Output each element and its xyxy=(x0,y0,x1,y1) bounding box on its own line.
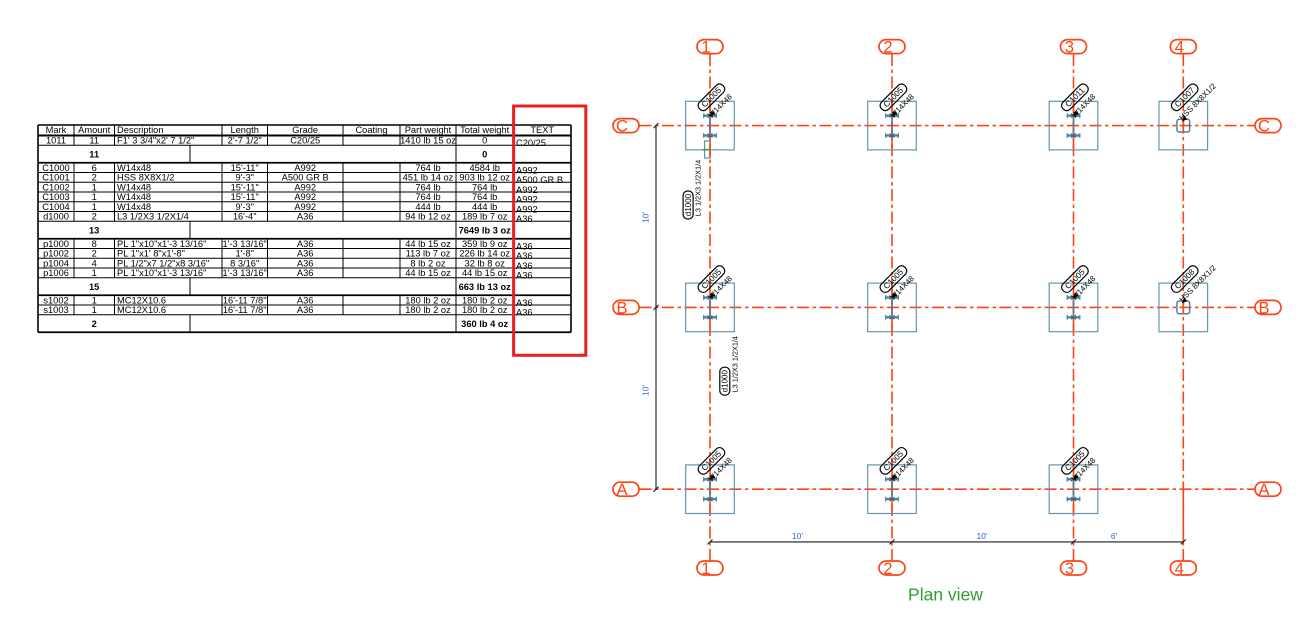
svg-text:p1002: p1002 xyxy=(43,249,69,259)
svg-text:TEXT: TEXT xyxy=(530,125,554,135)
svg-text:2: 2 xyxy=(883,560,892,578)
svg-text:10': 10' xyxy=(641,385,651,396)
svg-text:2: 2 xyxy=(92,319,97,329)
svg-text:44 lb 15 oz: 44 lb 15 oz xyxy=(462,268,508,278)
label C1005 W14X48 xyxy=(696,264,735,303)
svg-text:44 lb 15 oz: 44 lb 15 oz xyxy=(405,239,451,249)
grid bubble B xyxy=(1255,300,1281,314)
svg-text:4: 4 xyxy=(1175,39,1184,57)
svg-text:451 lb 14 oz: 451 lb 14 oz xyxy=(403,173,454,183)
svg-text:p1000: p1000 xyxy=(43,239,69,249)
svg-text:C1004: C1004 xyxy=(42,202,69,212)
svg-text:C: C xyxy=(1258,118,1270,136)
svg-text:16'-4": 16'-4" xyxy=(233,212,257,222)
grid bubble B xyxy=(613,300,639,314)
svg-text:A36: A36 xyxy=(297,249,314,259)
grid bubble A xyxy=(613,482,639,496)
svg-text:W14x48: W14x48 xyxy=(117,202,151,212)
svg-text:32 lb 8 oz: 32 lb 8 oz xyxy=(465,258,506,268)
column C1005 W14X48 at (892,125.6) xyxy=(868,101,917,150)
svg-text:A36: A36 xyxy=(516,251,533,261)
svg-text:Description: Description xyxy=(117,125,164,135)
svg-text:16'-11 7/8": 16'-11 7/8" xyxy=(223,295,267,305)
svg-text:A500 GR B: A500 GR B xyxy=(282,173,329,183)
red highlight rectangle over TEXT column xyxy=(514,106,586,355)
svg-text:HSS 8X8X1/2: HSS 8X8X1/2 xyxy=(117,173,174,183)
label C1005 W14X48 xyxy=(696,82,735,121)
svg-text:2: 2 xyxy=(883,39,892,57)
svg-text:PL 1"x10"x1'-3 13/16": PL 1"x10"x1'-3 13/16" xyxy=(117,268,206,278)
svg-text:A36: A36 xyxy=(297,295,314,305)
svg-text:764 lb: 764 lb xyxy=(472,192,497,202)
label C1007 HSS 8X8X1/2 xyxy=(1168,73,1217,122)
grid bubble A xyxy=(1255,482,1281,496)
svg-text:L3 1/2X3 1/2X1/4: L3 1/2X3 1/2X1/4 xyxy=(694,160,703,216)
green tick xyxy=(703,149,711,151)
svg-text:15'-11": 15'-11" xyxy=(231,182,259,192)
svg-text:A36: A36 xyxy=(297,239,314,249)
grid bubble 3 xyxy=(1061,561,1087,575)
grid bubble 1 xyxy=(697,561,723,575)
svg-text:1011: 1011 xyxy=(46,136,66,146)
svg-text:764 lb: 764 lb xyxy=(415,163,440,173)
svg-text:0: 0 xyxy=(482,149,487,159)
grid bubble 3 xyxy=(1061,40,1087,54)
grid bubble C xyxy=(1255,119,1281,133)
grid lines xyxy=(640,54,1255,561)
svg-text:444 lb: 444 lb xyxy=(472,202,497,212)
svg-text:Plan view: Plan view xyxy=(908,585,983,605)
svg-text:2'-7 1/2": 2'-7 1/2" xyxy=(228,136,262,146)
label C1005 W14X48 xyxy=(878,446,917,485)
svg-text:1: 1 xyxy=(92,295,97,305)
svg-text:A36: A36 xyxy=(516,298,533,308)
svg-text:Part weight: Part weight xyxy=(405,125,452,135)
svg-text:4: 4 xyxy=(92,258,97,268)
svg-text:94 lb 12 oz: 94 lb 12 oz xyxy=(405,212,451,222)
svg-text:L3 1/2X3 1/2X1/4: L3 1/2X3 1/2X1/4 xyxy=(117,212,189,222)
svg-text:s1003: s1003 xyxy=(43,305,68,315)
svg-text:16'-11 7/8": 16'-11 7/8" xyxy=(223,305,267,315)
svg-text:180 lb 2 oz: 180 lb 2 oz xyxy=(462,305,508,315)
svg-text:359 lb 9 oz: 359 lb 9 oz xyxy=(462,239,508,249)
svg-text:8 lb 2 oz: 8 lb 2 oz xyxy=(410,258,445,268)
svg-text:663 lb 13 oz: 663 lb 13 oz xyxy=(459,282,512,292)
label C1008 HSS 8X8X1/2 xyxy=(1168,254,1217,303)
svg-text:A992: A992 xyxy=(294,192,316,202)
svg-text:10': 10' xyxy=(976,531,987,541)
svg-text:15'-11": 15'-11" xyxy=(231,192,259,202)
label C1005 W14X48 xyxy=(878,82,917,121)
svg-text:A992: A992 xyxy=(294,202,316,212)
svg-text:2: 2 xyxy=(92,212,97,222)
svg-text:1: 1 xyxy=(701,39,710,57)
svg-text:44 lb 15 oz: 44 lb 15 oz xyxy=(405,268,451,278)
column C1005 W14X48 at (892,307.4) xyxy=(868,283,917,332)
svg-text:d1000: d1000 xyxy=(684,193,693,216)
svg-text:3: 3 xyxy=(1065,39,1074,57)
svg-text:8: 8 xyxy=(92,239,97,249)
svg-text:A992: A992 xyxy=(516,185,538,195)
material list table xyxy=(38,125,571,332)
svg-text:1'-8": 1'-8" xyxy=(235,249,254,259)
svg-text:A: A xyxy=(1258,481,1269,499)
svg-text:Amount: Amount xyxy=(78,125,110,135)
svg-text:1'-3 13/16": 1'-3 13/16" xyxy=(223,239,267,249)
grid bubble 2 xyxy=(879,561,905,575)
svg-text:L3 1/2X3 1/2X1/4: L3 1/2X3 1/2X1/4 xyxy=(730,336,739,392)
svg-text:A: A xyxy=(616,481,627,499)
svg-text:Grade: Grade xyxy=(292,125,318,135)
svg-text:A500 GR B: A500 GR B xyxy=(516,175,563,185)
svg-text:C1000: C1000 xyxy=(42,163,69,173)
svg-text:2: 2 xyxy=(92,249,97,259)
svg-text:1: 1 xyxy=(92,202,97,212)
brace connection bracket below C-1 xyxy=(705,141,711,158)
svg-text:0: 0 xyxy=(482,136,487,146)
svg-text:Total weight: Total weight xyxy=(460,125,510,135)
svg-text:1410 lb 15 oz: 1410 lb 15 oz xyxy=(400,136,456,146)
svg-text:C1003: C1003 xyxy=(42,192,69,202)
left dimension line xyxy=(654,123,659,492)
svg-text:180 lb 2 oz: 180 lb 2 oz xyxy=(405,295,451,305)
svg-text:A992: A992 xyxy=(516,195,538,205)
svg-text:PL 1/2"x7 1/2"x8 3/16": PL 1/2"x7 1/2"x8 3/16" xyxy=(117,258,209,268)
grid bubble 1 xyxy=(697,40,723,54)
svg-text:9'-3": 9'-3" xyxy=(235,202,254,212)
svg-text:1: 1 xyxy=(92,268,97,278)
svg-text:C20/25: C20/25 xyxy=(516,138,546,148)
column C1005 W14X48 at (1073.5,307.4) xyxy=(1049,283,1098,332)
svg-text:s1002: s1002 xyxy=(43,295,68,305)
column C1005 W14X48 at (892,489.2) xyxy=(868,465,917,514)
svg-text:A992: A992 xyxy=(516,204,538,214)
svg-text:2: 2 xyxy=(92,173,97,183)
svg-text:764 lb: 764 lb xyxy=(415,192,440,202)
svg-text:W14x48: W14x48 xyxy=(117,192,151,202)
label C1011 W14X48 xyxy=(1060,82,1099,121)
grid bubble 2 xyxy=(879,40,905,54)
svg-text:3: 3 xyxy=(1065,560,1074,578)
svg-text:C1002: C1002 xyxy=(42,182,69,192)
label C1005 W14X48 xyxy=(1060,446,1099,485)
svg-text:A992: A992 xyxy=(294,182,316,192)
svg-text:1: 1 xyxy=(92,192,97,202)
svg-text:A36: A36 xyxy=(297,258,314,268)
svg-text:10': 10' xyxy=(792,531,803,541)
svg-text:A36: A36 xyxy=(516,261,533,271)
svg-text:7649 lb 3 oz: 7649 lb 3 oz xyxy=(459,225,512,235)
svg-text:180 lb 2 oz: 180 lb 2 oz xyxy=(462,295,508,305)
svg-text:A36: A36 xyxy=(516,308,533,318)
svg-text:C20/25: C20/25 xyxy=(290,136,320,146)
svg-text:A36: A36 xyxy=(516,241,533,251)
grid bubble 4 xyxy=(1170,40,1196,54)
svg-text:d1000: d1000 xyxy=(43,212,69,222)
column C1005 W14X48 at (710,125.6) xyxy=(686,101,735,150)
svg-text:360 lb 4 oz: 360 lb 4 oz xyxy=(461,319,508,329)
label C1005 W14X48 xyxy=(1060,264,1099,303)
svg-text:13: 13 xyxy=(89,225,99,235)
label d1000 L3 1/2X3 1/2X1/4 xyxy=(720,336,740,395)
svg-text:p1004: p1004 xyxy=(43,258,69,268)
svg-text:PL 1"x1' 8"x1'-8": PL 1"x1' 8"x1'-8" xyxy=(117,249,185,259)
svg-text:4584 lb: 4584 lb xyxy=(469,163,500,173)
column C1007 HSS 8X8X1/2 at (1183.3,125.6) xyxy=(1159,101,1208,150)
svg-text:Length: Length xyxy=(230,125,258,135)
label d1000 L3 1/2X3 1/2X1/4 xyxy=(683,160,703,219)
svg-text:C: C xyxy=(616,118,628,136)
svg-text:MC12X10.6: MC12X10.6 xyxy=(117,295,166,305)
svg-text:764 lb: 764 lb xyxy=(472,182,497,192)
svg-text:F1' 3 3/4"x2' 7 1/2": F1' 3 3/4"x2' 7 1/2" xyxy=(117,136,194,146)
svg-text:6: 6 xyxy=(92,163,97,173)
svg-text:A36: A36 xyxy=(297,268,314,278)
bottom dimension line xyxy=(708,539,1186,544)
svg-text:W14x48: W14x48 xyxy=(117,182,151,192)
svg-text:W14x48: W14x48 xyxy=(117,163,151,173)
svg-text:B: B xyxy=(1258,299,1269,317)
column C1005 W14X48 at (710,489.2) xyxy=(686,465,735,514)
svg-text:226 lb 14 oz: 226 lb 14 oz xyxy=(459,249,510,259)
column C1011 W14X48 at (1073.5,125.6) xyxy=(1049,101,1098,150)
svg-text:4: 4 xyxy=(1175,560,1184,578)
svg-text:A36: A36 xyxy=(516,271,533,281)
svg-text:Coating: Coating xyxy=(355,125,387,135)
column C1005 W14X48 at (710,307.4) xyxy=(686,283,735,332)
label C1005 W14X48 xyxy=(696,446,735,485)
svg-text:A36: A36 xyxy=(297,212,314,222)
svg-text:A36: A36 xyxy=(297,305,314,315)
svg-text:1: 1 xyxy=(92,305,97,315)
svg-text:A992: A992 xyxy=(294,163,316,173)
solid grid segments at columns xyxy=(710,98,1183,542)
svg-text:444 lb: 444 lb xyxy=(415,202,440,212)
svg-text:15: 15 xyxy=(89,282,99,292)
svg-text:A992: A992 xyxy=(516,165,538,175)
svg-text:p1006: p1006 xyxy=(43,268,69,278)
svg-text:1'-3 13/16": 1'-3 13/16" xyxy=(223,268,267,278)
svg-text:d1000: d1000 xyxy=(721,370,730,393)
svg-text:A36: A36 xyxy=(516,214,533,224)
svg-text:15'-11": 15'-11" xyxy=(231,163,259,173)
svg-text:189 lb 7 oz: 189 lb 7 oz xyxy=(462,212,508,222)
svg-text:8 3/16": 8 3/16" xyxy=(230,258,259,268)
svg-text:C1001: C1001 xyxy=(42,173,69,183)
svg-text:11: 11 xyxy=(89,136,99,146)
svg-text:764 lb: 764 lb xyxy=(415,182,440,192)
svg-text:B: B xyxy=(616,299,627,317)
left dimension texts xyxy=(641,212,651,223)
svg-text:PL 1"x10"x1'-3 13/16": PL 1"x10"x1'-3 13/16" xyxy=(117,239,206,249)
svg-text:1: 1 xyxy=(92,182,97,192)
svg-text:11: 11 xyxy=(89,149,99,159)
svg-text:10': 10' xyxy=(641,212,651,223)
svg-text:1: 1 xyxy=(701,560,710,578)
grid bubble 4 xyxy=(1170,561,1196,575)
svg-text:9'-3": 9'-3" xyxy=(235,173,254,183)
column C1005 W14X48 at (1073.5,489.2) xyxy=(1049,465,1098,514)
svg-text:903 lb 12 oz: 903 lb 12 oz xyxy=(459,173,510,183)
svg-text:6': 6' xyxy=(1111,531,1118,541)
svg-text:Mark: Mark xyxy=(46,125,67,135)
label C1005 W14X48 xyxy=(878,264,917,303)
column C1008 HSS 8X8X1/2 at (1183.3,307.4) xyxy=(1159,283,1208,332)
grid bubble C xyxy=(613,119,639,133)
svg-text:MC12X10.6: MC12X10.6 xyxy=(117,305,166,315)
svg-text:113 lb 7 oz: 113 lb 7 oz xyxy=(406,249,451,259)
svg-text:180 lb 2 oz: 180 lb 2 oz xyxy=(405,305,451,315)
